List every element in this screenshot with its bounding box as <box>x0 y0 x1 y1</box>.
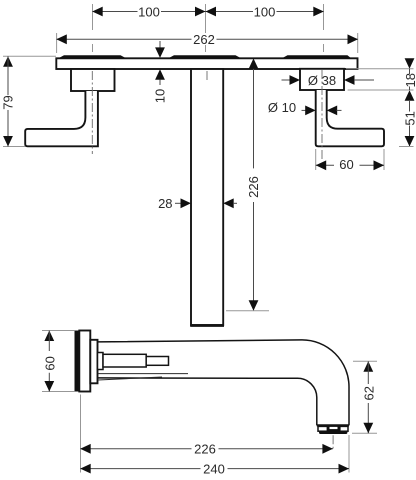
aerator lip <box>319 431 347 434</box>
svg-text:62: 62 <box>361 386 376 400</box>
left handle lever <box>25 91 98 146</box>
svg-text:18: 18 <box>403 73 416 87</box>
dimension 240 arrow left <box>80 464 91 474</box>
dimension 79 line <box>7 56 9 146</box>
dimension 60 bottom arrow down <box>44 381 54 392</box>
dimension O10 arrow right <box>327 106 338 116</box>
dimension 100 left line <box>93 11 206 13</box>
spout cartridge bar <box>103 354 146 367</box>
spout tube inner line A <box>98 373 188 375</box>
dimension O38 arrow right <box>344 75 355 85</box>
dimension 79: extension line bottom <box>3 146 25 148</box>
dimension 18 line <box>409 69 411 90</box>
dimension 262 line <box>57 38 358 40</box>
dimension 60 right: extension line left <box>315 149 317 170</box>
dimension 100 left: extension line left <box>92 4 94 52</box>
dimension 28 arrow left <box>181 198 192 208</box>
spout escutcheon collar <box>90 340 97 384</box>
dimension 226 bottom arrow left <box>80 444 91 454</box>
dimension 18 arrow up (shared with 51) <box>405 90 415 101</box>
dimension 62: extension line bottom <box>352 432 377 434</box>
dimension 100 right: extension line right <box>323 4 325 52</box>
dimension 28 arrow right <box>223 198 234 208</box>
dimension O38 arrow left <box>290 75 301 85</box>
dimension 62 arrow up <box>363 361 373 372</box>
svg-text:226: 226 <box>194 442 216 457</box>
dimension O10 leader right <box>337 109 342 111</box>
dimension 18: extension line bottom <box>348 89 414 91</box>
dimension 10 arrow down <box>155 47 165 58</box>
right mounting pad <box>281 55 352 59</box>
spout outlet end line <box>317 424 349 426</box>
dimension 51 extension line bottom <box>399 146 414 148</box>
dimension O38 leader left <box>282 79 291 81</box>
left valve body <box>71 69 115 91</box>
dimension 28 leader left <box>175 202 181 204</box>
dimension 18: extension line top <box>346 68 414 70</box>
spout shaft (plan view) <box>191 69 223 325</box>
spout escutcheon body <box>79 331 90 392</box>
dimension 262: extension line left <box>56 33 58 53</box>
dimension 10 arrow up <box>155 69 165 80</box>
spout cartridge neck <box>98 353 104 370</box>
dimension 226 vertical line <box>253 69 255 311</box>
dimension 226 arrow bottom <box>249 300 259 311</box>
dimension 60 right: extension line right <box>383 149 385 170</box>
dimension 262 arrow left <box>56 34 67 44</box>
aerator ribbed dark center <box>327 426 341 431</box>
dimension 100 left arrow right <box>195 7 206 17</box>
svg-text:79: 79 <box>1 95 16 109</box>
svg-text:100: 100 <box>138 4 160 19</box>
dimension O38 leader right <box>354 79 374 81</box>
svg-text:Ø 38: Ø 38 <box>308 73 336 88</box>
aerator rib slot <box>330 427 338 429</box>
dimension 10 leader below <box>159 80 161 86</box>
dimension 60 bottom: extension line top <box>42 330 75 332</box>
svg-text:262: 262 <box>193 32 215 47</box>
spout shaft bottom edge <box>190 324 224 327</box>
right handle lever <box>316 90 384 146</box>
dimension 226 extension line bottom <box>226 310 269 312</box>
svg-text:60: 60 <box>339 157 353 172</box>
dimension 10 (plate thickness): leader above <box>159 41 161 49</box>
right valve escutcheon block <box>300 69 344 90</box>
svg-text:240: 240 <box>203 461 225 476</box>
dimension 60 bottom line <box>48 331 50 392</box>
dimension 226 (projection, plan): arrow top <box>249 58 259 69</box>
svg-text:60: 60 <box>42 356 57 370</box>
spout shaft centerline <box>206 71 208 80</box>
middle mounting pad <box>168 55 243 59</box>
spout cartridge end cap <box>146 357 168 366</box>
dimension 62 line <box>367 361 369 433</box>
svg-text:100: 100 <box>254 4 276 19</box>
spout tube outer profile <box>98 340 350 426</box>
svg-text:51: 51 <box>403 111 416 125</box>
dimension 18 arrow down <box>405 58 415 69</box>
svg-text:28: 28 <box>158 196 172 211</box>
dimension 79 arrow top <box>3 56 13 66</box>
wall reference extension line (bottom view) <box>80 395 82 473</box>
dimension 226 bottom line <box>81 448 333 450</box>
svg-text:226: 226 <box>246 176 261 198</box>
dimension 240 extension line right <box>348 435 350 473</box>
dimension O10 arrow left <box>305 106 316 116</box>
left mounting pad <box>58 55 128 59</box>
dimension 262 arrow right <box>348 34 359 44</box>
dimension 62 arrow down <box>363 423 373 434</box>
dimension 79: extension line top <box>3 55 56 57</box>
dimension 100 right arrow right <box>313 7 324 17</box>
dimension 51 line <box>409 100 411 147</box>
spout escutcheon wall flange (side view) <box>75 331 80 392</box>
dimension 60 right line <box>316 164 384 166</box>
spout tube inner profile <box>98 378 317 426</box>
dimension 79 arrow bottom <box>3 136 13 147</box>
dimension 100 right line <box>206 11 324 13</box>
svg-text:Ø 10: Ø 10 <box>268 100 296 115</box>
wall plate slab (plan view) <box>56 58 357 69</box>
dimension 100 right arrow left <box>206 7 217 17</box>
dimension 51 arrow down <box>405 136 415 147</box>
dimension 62: extension line top <box>353 360 377 362</box>
spout tube inner slant line B <box>98 377 162 380</box>
dimension 100 left: extension line middle <box>205 4 207 52</box>
dimension 60 right arrow right <box>374 160 385 170</box>
dimension 28 leader right <box>233 202 237 204</box>
right handle centerline <box>321 70 323 160</box>
dimension 262: extension line right <box>357 33 359 53</box>
left handle centerline <box>91 71 93 154</box>
dimension 226 bottom arrow right <box>322 444 333 454</box>
dimension 60 bottom arrow up <box>44 331 54 342</box>
dimension 240 line <box>81 468 350 470</box>
dimension 100 left arrow left <box>92 7 103 17</box>
dimension 240 arrow right <box>339 464 350 474</box>
spout axis centerline vertical <box>332 435 334 448</box>
aerator ribbed ring <box>318 426 348 431</box>
dimension O10 leader left <box>302 109 307 111</box>
dimension 60 bottom: extension line bottom <box>42 391 75 393</box>
svg-text:10: 10 <box>152 89 167 103</box>
dimension 60 right arrow left <box>316 160 327 170</box>
